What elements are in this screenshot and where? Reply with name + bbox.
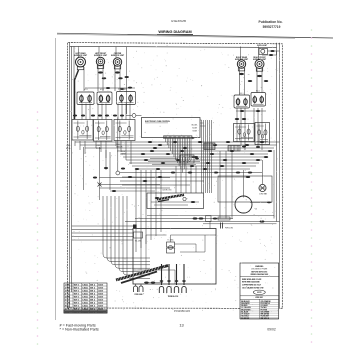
- scan speckle noise: [66, 42, 285, 312]
- connector right mid 2: [264, 80, 268, 82]
- svg-text:RD-RED: RD-RED: [241, 305, 248, 307]
- wire power run 2: [125, 221, 230, 223]
- wire bus: [123, 156, 265, 158]
- oven selector switch: [234, 124, 255, 142]
- wire power run 3: [203, 223, 277, 225]
- svg-text:P/N295D145: P/N295D145: [174, 309, 190, 313]
- svg-text:600V: 600V: [98, 300, 103, 302]
- node open junction: [132, 114, 136, 118]
- wire switch to bus: [95, 141, 97, 148]
- thermal junction TC: [167, 240, 175, 254]
- connector right link 2: [256, 110, 260, 112]
- wire switch drop: [101, 104, 103, 120]
- wire oven internal 7: [195, 244, 197, 252]
- wire switch to bus: [105, 141, 107, 158]
- wire band to oven box: [145, 170, 147, 244]
- header rule: [57, 33, 333, 38]
- surface unit center: [111, 53, 125, 69]
- connector splice: [214, 172, 218, 174]
- svg-text:600V: 600V: [98, 303, 103, 305]
- connector splice: [248, 172, 252, 174]
- wire EOC side bundle: [205, 120, 207, 193]
- svg-text:PR-PURPLE: PR-PURPLE: [261, 303, 271, 305]
- svg-text:13: 13: [179, 323, 183, 328]
- svg-text:4 YL: 4 YL: [65, 293, 70, 296]
- wire switch drop: [117, 104, 119, 120]
- wire fan feed: [262, 160, 264, 184]
- wire bus: [120, 153, 268, 155]
- connector harness: [73, 115, 77, 117]
- svg-text:WR-W/RED: WR-W/RED: [261, 314, 270, 316]
- wire right switch to bus: [257, 108, 259, 146]
- wire bus: [132, 165, 256, 167]
- svg-text:600V: 600V: [98, 288, 103, 290]
- connector splice: [226, 141, 230, 143]
- node open junction 2: [116, 171, 120, 175]
- wire right switch to bus: [236, 108, 238, 142]
- connector splice: [161, 162, 165, 164]
- connector right row 3: [242, 146, 246, 148]
- svg-text:YL-YELLOW: YL-YELLOW: [241, 307, 251, 309]
- svg-text:WH 1: WH 1: [74, 300, 80, 302]
- wire bus: [85, 147, 274, 149]
- svg-text:GD-GOLD: GD-GOLD: [241, 316, 249, 318]
- svg-text:OVEN: OVEN: [116, 144, 120, 146]
- switch left rear surface: [77, 92, 94, 105]
- connector splice: [183, 147, 187, 149]
- connector splice: [143, 180, 147, 182]
- wire LF unit drop: [97, 66, 99, 91]
- svg-text:7 OR: 7 OR: [65, 303, 70, 305]
- connector splice: [198, 141, 202, 143]
- wire band to door lock: [175, 166, 177, 193]
- svg-text:600V: 600V: [98, 297, 103, 299]
- connector splice: [158, 176, 162, 178]
- connector splice: [223, 159, 227, 161]
- wire harness bundle left drop: [103, 196, 150, 278]
- wire power to bus: [230, 221, 280, 223]
- surface unit right rear: [235, 56, 249, 71]
- oven thermostat switch: [255, 123, 270, 145]
- wire center drop to node: [126, 47, 128, 115]
- wire loom diagonal: [116, 265, 168, 283]
- wire CTR unit drop 2: [119, 67, 121, 92]
- wire mid drop C: [109, 152, 111, 190]
- svg-text:SURFACE UNIT: SURFACE UNIT: [235, 58, 249, 61]
- connector block P3: [204, 143, 215, 150]
- capacitor power filter: [221, 223, 233, 230]
- svg-text:WH 1: WH 1: [74, 291, 80, 293]
- svg-text:Publication No.: Publication No.: [259, 20, 283, 24]
- wire switch row link: [85, 87, 135, 89]
- connector mid lead: [102, 77, 106, 79]
- wire switch to bus: [74, 141, 76, 146]
- wire switch drop: [125, 104, 127, 120]
- svg-text:09/02: 09/02: [267, 327, 276, 331]
- connector splice: [213, 144, 217, 146]
- wire oven internal 3: [146, 234, 167, 236]
- wire right switch to bus: [244, 108, 246, 150]
- connector splice: [144, 159, 148, 161]
- svg-text:BK 2: BK 2: [90, 285, 96, 287]
- connector terminal top: [175, 280, 179, 282]
- svg-text:BEFORE SERVICING: BEFORE SERVICING: [251, 272, 268, 274]
- wire RF unit drop 2: [261, 69, 263, 93]
- svg-text:P5 GY: P5 GY: [121, 151, 125, 153]
- wire bottom link: [144, 282, 163, 284]
- wire right bus 3: [279, 43, 281, 308]
- switch center surface: [117, 92, 136, 105]
- connector splice: [171, 172, 175, 174]
- connector splice: [203, 168, 207, 170]
- electronic oven control EOC: [142, 118, 201, 138]
- wire bus: [120, 172, 262, 174]
- wire bus: [126, 159, 262, 161]
- wire switch to bus: [84, 141, 86, 154]
- wire left bus 1: [69, 43, 71, 308]
- wire switch to bus: [120, 141, 122, 152]
- wire bus: [129, 162, 259, 164]
- svg-text:SURFACE UNIT: SURFACE UNIT: [94, 54, 108, 57]
- wire right drop: [231, 151, 233, 219]
- connector RR lead: [239, 73, 244, 75]
- connector harness: [98, 115, 102, 117]
- connector mid 3: [112, 190, 116, 192]
- connector splice: [156, 168, 160, 170]
- svg-text:BG-BEIGE: BG-BEIGE: [241, 318, 250, 320]
- wire left bottom run: [72, 229, 133, 231]
- junction TBL: [134, 232, 143, 243]
- connector center link: [120, 88, 124, 90]
- wire bus: [122, 176, 250, 178]
- svg-text:14GA: 14GA: [82, 293, 88, 296]
- power lead terminals: [134, 286, 144, 296]
- svg-text:600V: 600V: [98, 285, 103, 287]
- wire switch drop: [121, 104, 123, 120]
- connector splice: [194, 156, 198, 158]
- svg-text:PK-PINK: PK-PINK: [261, 309, 268, 311]
- svg-text:8 BL: 8 BL: [65, 306, 70, 308]
- wire LR unit drop thick: [75, 70, 79, 119]
- wire power run 0: [147, 215, 274, 217]
- wire switch to bus: [79, 141, 81, 150]
- oven body enclosure: [133, 229, 216, 285]
- connector splice: [220, 165, 224, 167]
- wire right switch link: [236, 110, 266, 112]
- wire bus: [120, 180, 204, 182]
- wire to terminal: [161, 264, 163, 285]
- svg-text:SURFACE UNIT: SURFACE UNIT: [74, 54, 88, 57]
- wire left bottom run: [72, 225, 133, 227]
- connector splice: [250, 153, 254, 155]
- connector harness: [81, 115, 85, 117]
- wire oven internal 1: [140, 232, 142, 270]
- svg-text:WH-WHITE: WH-WHITE: [241, 303, 250, 305]
- broil element: [157, 190, 184, 202]
- svg-text:3 RD: 3 RD: [65, 291, 70, 293]
- wire left bottom run: [72, 232, 133, 234]
- wire band to oven box: [155, 170, 157, 236]
- wire right bus 2: [276, 43, 278, 222]
- connector bottom 1: [144, 282, 148, 284]
- svg-text:VT-VIOLET: VT-VIOLET: [241, 314, 249, 316]
- svg-text:BK 2: BK 2: [90, 303, 96, 305]
- svg-text:600V: 600V: [98, 306, 103, 308]
- connector mid 1b: [121, 168, 125, 170]
- connector center drop: [125, 76, 129, 78]
- wire mid box edge: [83, 147, 85, 190]
- wire bus: [80, 144, 277, 146]
- wire oven internal 5: [171, 234, 217, 236]
- wire bus: [117, 150, 271, 152]
- wire left bottom run: [72, 236, 133, 238]
- svg-text:WH 1: WH 1: [74, 288, 80, 290]
- connector splice: [246, 176, 250, 178]
- wire top feed CTR: [115, 47, 117, 58]
- connector splice: [128, 176, 132, 178]
- wire right switch to bus: [240, 108, 242, 146]
- connector splice: [245, 144, 249, 146]
- connector right row 4: [256, 146, 260, 148]
- wire RR unit drop: [239, 69, 241, 96]
- connector splice: [135, 168, 139, 170]
- wire switch drop: [89, 104, 91, 120]
- wire top feed RR: [240, 47, 242, 60]
- wire bus: [122, 184, 190, 186]
- svg-text:WB-W/BLK: WB-W/BLK: [261, 318, 270, 320]
- connector splice: [176, 159, 180, 161]
- connector mid 1: [104, 167, 108, 169]
- wire mid drop A: [99, 147, 101, 200]
- infinite switch assembly 3: [114, 120, 135, 141]
- convection fan motor M1: [235, 196, 257, 213]
- svg-text:NOTE: NOTE: [257, 292, 261, 294]
- wire switch to bus: [115, 141, 117, 146]
- wire band to door lock: [195, 166, 197, 193]
- svg-text:WIRING DIAGRAM: WIRING DIAGRAM: [158, 30, 191, 34]
- wire oven internal 4: [170, 235, 172, 242]
- svg-text:105 C UNLESS NOTED OTW: 105 C UNLESS NOTED OTW: [242, 288, 264, 290]
- wire top feed LR: [78, 47, 80, 58]
- wire motor feed: [243, 170, 245, 198]
- connector splice: [150, 150, 154, 152]
- wire RF unit drop: [256, 69, 258, 93]
- svg-text:WH 2B: WH 2B: [96, 148, 101, 150]
- wire CTR unit drop: [114, 67, 116, 92]
- wire pwr lead 1: [135, 284, 137, 286]
- svg-text:H1 L1: H1 L1: [100, 89, 104, 91]
- connector RF lead: [257, 75, 262, 77]
- svg-text:DISCONNECT POWER: DISCONNECT POWER: [251, 269, 268, 271]
- svg-text:2 WH: 2 WH: [65, 288, 71, 290]
- connector block P4: [228, 146, 240, 152]
- svg-text:SV-SILVER: SV-SILVER: [261, 316, 270, 318]
- wire to terminal: [183, 264, 185, 285]
- svg-text:1 BK: 1 BK: [65, 285, 70, 287]
- wire conv link: [250, 201, 272, 203]
- wire bus: [75, 141, 280, 143]
- wire RR unit drop 2: [244, 69, 246, 96]
- connector weave 1: [191, 156, 195, 158]
- svg-text:WH 1: WH 1: [74, 306, 80, 308]
- wire weave 3: [152, 164, 196, 166]
- wire left feed to switch: [73, 47, 75, 121]
- wire top feed RF: [258, 47, 260, 60]
- connector terminal top: [160, 280, 164, 282]
- svg-text:BK 2: BK 2: [90, 297, 96, 299]
- svg-text:BR-BROWN: BR-BROWN: [241, 309, 251, 311]
- svg-text:SURFACE UNIT: SURFACE UNIT: [111, 54, 125, 57]
- svg-text:14GA: 14GA: [82, 296, 88, 299]
- connector bottom 2: [151, 282, 155, 284]
- connector LF lead: [98, 71, 103, 73]
- connector switch row 1: [106, 87, 110, 89]
- svg-text:14GA: 14GA: [82, 284, 88, 287]
- svg-text:14GA: 14GA: [82, 290, 88, 293]
- svg-text:WARNING: WARNING: [255, 265, 264, 268]
- connector mid elbow: [93, 177, 97, 179]
- wire EOC side bundle: [203, 120, 205, 193]
- switch right rear surface: [234, 95, 250, 108]
- connector splice: [190, 165, 194, 167]
- connector CTR lead: [115, 71, 120, 73]
- svg-text:WH 1: WH 1: [74, 303, 80, 305]
- oven box inner step: [133, 269, 175, 271]
- connector splice: [210, 153, 214, 155]
- connector harness: [120, 115, 124, 117]
- svg-text:PWR CORD: PWR CORD: [225, 228, 233, 230]
- connector splice: [158, 144, 162, 146]
- switch left front surface: [97, 92, 112, 105]
- connector splice: [236, 172, 240, 174]
- svg-text:WH 1: WH 1: [74, 285, 80, 287]
- connector weave 2: [195, 158, 199, 160]
- wire band to oven box: [160, 170, 162, 232]
- wire LR unit drop 2: [83, 67, 85, 91]
- svg-text:600V: 600V: [98, 291, 103, 293]
- connector right row 2: [242, 118, 246, 120]
- svg-text:* 15: * 15: [254, 209, 257, 211]
- connector splice: [188, 172, 192, 174]
- connector splice: [180, 150, 184, 152]
- connector splice: [268, 150, 272, 152]
- wire right switch to bus: [261, 108, 263, 150]
- wire top L1 run: [70, 46, 277, 47]
- wire switch drop: [97, 104, 99, 120]
- svg-text:5 BR: 5 BR: [65, 297, 70, 299]
- wire weave 2: [148, 161, 200, 163]
- connector harness: [91, 115, 95, 117]
- wire right bus 1: [273, 150, 275, 219]
- svg-text:WIRE KEY: WIRE KEY: [255, 297, 264, 299]
- wire switch to bus: [125, 141, 127, 160]
- relay block K1: [180, 155, 194, 163]
- svg-text:600V: 600V: [98, 294, 103, 296]
- connector splice: [242, 162, 246, 164]
- svg-text:W-2(P): W-2(P): [192, 128, 197, 130]
- infinite switch assembly 2: [94, 120, 113, 142]
- wire right drop: [225, 151, 227, 219]
- wire EOC side bundle: [201, 120, 203, 193]
- svg-text:BK 2: BK 2: [90, 294, 96, 296]
- wire band to door lock: [190, 166, 192, 193]
- wire EOC side bundle: [211, 120, 213, 193]
- connector splice: [260, 141, 264, 143]
- switch right front surface: [251, 93, 266, 107]
- wire left bottom run: [72, 239, 133, 241]
- wire center link: [118, 88, 127, 90]
- connector terminal top: [167, 280, 171, 282]
- wire top feed LF: [98, 47, 100, 58]
- surface unit left rear: [74, 52, 88, 70]
- wire band to oven box: [140, 170, 142, 248]
- wire EOC side bundle: [209, 120, 211, 193]
- wire right switch to bus: [253, 108, 255, 142]
- connector terminal top: [182, 280, 186, 282]
- svg-text:WH 1: WH 1: [74, 297, 80, 299]
- wire oven internal 2: [145, 235, 147, 270]
- connector harness: [113, 115, 117, 117]
- svg-text:SENSOR: SENSOR: [116, 147, 123, 149]
- connector harness: [105, 115, 109, 117]
- wire switch drop: [85, 104, 87, 120]
- svg-text:R-3(P): R-3(P): [193, 131, 198, 133]
- svg-text:BK 2: BK 2: [90, 291, 96, 293]
- wire band to oven box: [135, 170, 137, 252]
- connector power lead: [260, 220, 265, 222]
- connector right mid: [248, 80, 252, 82]
- oven light assembly: [257, 45, 280, 56]
- door lock switch assembly: [147, 193, 204, 209]
- wire weave 1: [150, 158, 178, 160]
- wire LF unit drop 2: [102, 66, 104, 91]
- svg-text:TBL JUNC: TBL JUNC: [135, 241, 142, 243]
- wire left bus 2: [71, 47, 73, 293]
- svg-text:14GA: 14GA: [82, 287, 88, 290]
- wire color code table: [64, 283, 107, 314]
- connector splice: [264, 156, 268, 158]
- svg-text:6 GY: 6 GY: [65, 300, 70, 302]
- wire switch drop: [129, 104, 131, 120]
- page crease line: [55, 38, 57, 320]
- connector splice: [148, 141, 152, 143]
- connector right link 1: [240, 110, 244, 112]
- svg-text:TERM BLOCK: TERM BLOCK: [168, 296, 179, 298]
- wire bus: [135, 168, 250, 170]
- wire mid drop B: [105, 150, 107, 170]
- svg-text:BK 2: BK 2: [90, 306, 96, 308]
- splice X mark: [98, 183, 102, 187]
- wire mid horizontal 3: [100, 187, 171, 189]
- surface unit left front: [94, 53, 108, 68]
- wire band to door lock: [180, 166, 182, 193]
- wire oven to power: [209, 222, 211, 229]
- wire right drop: [219, 151, 221, 219]
- svg-text:COPPER WIRE 600 VOLT: COPPER WIRE 600 VOLT: [242, 285, 261, 287]
- svg-text:BL-BLUE: BL-BLUE: [241, 311, 249, 313]
- svg-text:BK 2: BK 2: [90, 288, 96, 290]
- wire EOC harness drops: [166, 137, 195, 173]
- wire switch drop: [105, 104, 107, 120]
- wire switch drop: [81, 104, 83, 120]
- surface unit right front: [253, 57, 267, 71]
- wire mid horizontal 2: [100, 184, 161, 186]
- perforation dots right: [311, 29, 313, 343]
- wire band to door lock: [185, 166, 187, 193]
- svg-text:BK-1(P): BK-1(P): [192, 125, 198, 127]
- fan blade symbol: [259, 184, 267, 195]
- svg-text:WH 1: WH 1: [74, 294, 80, 296]
